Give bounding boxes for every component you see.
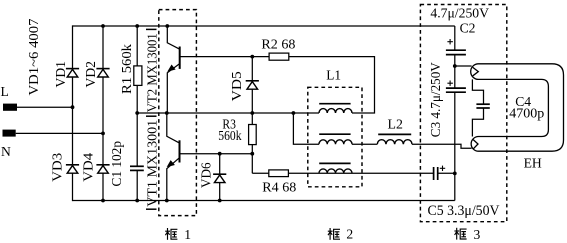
svg-text:4.7μ/250V: 4.7μ/250V	[430, 6, 489, 21]
svg-text:VD1: VD1	[53, 61, 68, 88]
svg-text:C3 4.7μ/250V: C3 4.7μ/250V	[428, 62, 443, 137]
svg-text:R2 68: R2 68	[261, 36, 295, 51]
svg-text:VD5: VD5	[229, 71, 244, 101]
svg-text:VD4: VD4	[80, 153, 95, 182]
svg-text:3: 3	[474, 227, 481, 242]
svg-text:VD1~6 4007: VD1~6 4007	[26, 18, 41, 95]
svg-text:L2: L2	[388, 116, 404, 131]
svg-text:R4 68: R4 68	[262, 179, 296, 194]
svg-text:N: N	[1, 144, 11, 159]
svg-text:L1: L1	[326, 67, 341, 82]
svg-text:VD6: VD6	[199, 162, 214, 188]
svg-text:R1 560k: R1 560k	[119, 44, 134, 94]
svg-text:C1 102p: C1 102p	[109, 141, 124, 187]
svg-text:C2: C2	[460, 20, 476, 35]
svg-text:C5 3.3μ/50V: C5 3.3μ/50V	[428, 203, 500, 219]
svg-text:VT2 MX13001: VT2 MX13001	[145, 33, 160, 112]
svg-text:VD3: VD3	[50, 153, 65, 182]
svg-text:560k: 560k	[218, 128, 241, 143]
svg-text:2: 2	[346, 227, 353, 242]
svg-text:VT1 MX13001: VT1 MX13001	[145, 120, 160, 207]
svg-text:VD2: VD2	[83, 61, 98, 88]
svg-text:4700p: 4700p	[509, 106, 544, 121]
svg-text:1: 1	[184, 227, 191, 242]
svg-text:EH: EH	[524, 155, 542, 170]
svg-text:L: L	[1, 84, 9, 99]
